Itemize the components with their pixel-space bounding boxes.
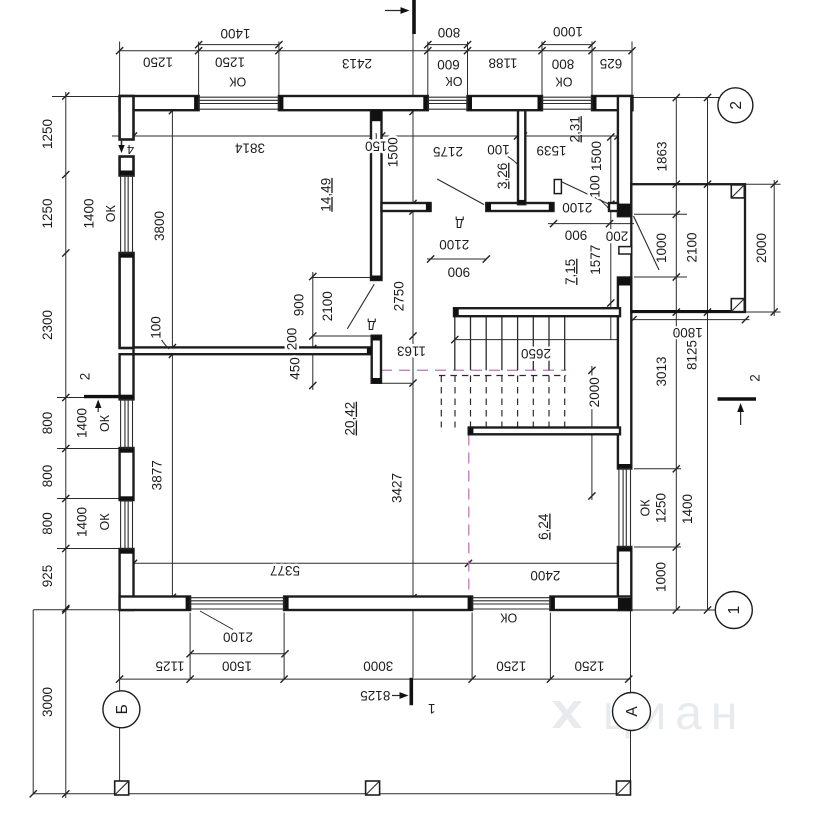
svg-text:625: 625	[600, 56, 623, 71]
svg-text:800: 800	[552, 56, 575, 71]
svg-text:800: 800	[40, 512, 55, 535]
svg-text:8125: 8125	[685, 340, 700, 370]
svg-text:1400: 1400	[680, 494, 695, 524]
svg-text:925: 925	[40, 565, 55, 588]
svg-text:1800: 1800	[673, 325, 703, 340]
svg-text:ОК: ОК	[104, 204, 118, 222]
svg-text:600: 600	[437, 57, 460, 72]
svg-text:6,24: 6,24	[536, 513, 551, 540]
svg-text:3877: 3877	[150, 460, 165, 490]
svg-text:4: 4	[127, 142, 134, 157]
svg-text:2100: 2100	[439, 237, 469, 252]
svg-text:Б: Б	[114, 704, 131, 714]
svg-text:2750: 2750	[391, 281, 406, 311]
svg-text:1250: 1250	[40, 119, 55, 149]
svg-text:900: 900	[292, 294, 307, 317]
svg-text:2000: 2000	[754, 233, 769, 263]
svg-text:1250: 1250	[40, 198, 55, 228]
svg-text:200: 200	[285, 328, 300, 351]
svg-text:7,15: 7,15	[563, 259, 578, 285]
svg-text:ОК: ОК	[555, 75, 573, 89]
svg-text:2,31: 2,31	[568, 116, 583, 142]
svg-text:1188: 1188	[488, 55, 517, 70]
svg-text:1577: 1577	[588, 245, 603, 275]
svg-text:ОК: ОК	[500, 611, 518, 625]
svg-text:1: 1	[428, 701, 436, 716]
svg-text:450: 450	[287, 357, 302, 380]
svg-text:2100: 2100	[685, 232, 700, 262]
svg-text:150: 150	[365, 139, 388, 154]
svg-text:5377: 5377	[270, 563, 300, 578]
svg-text:1000: 1000	[654, 233, 669, 263]
svg-text:2413: 2413	[342, 56, 372, 71]
svg-text:1250: 1250	[654, 493, 669, 523]
svg-text:900: 900	[448, 265, 471, 280]
svg-text:3000: 3000	[40, 687, 55, 717]
svg-text:3800: 3800	[152, 211, 167, 241]
svg-text:800: 800	[40, 412, 55, 435]
svg-text:Д: Д	[367, 318, 376, 332]
svg-text:1500: 1500	[222, 659, 252, 674]
svg-text:1250: 1250	[143, 55, 173, 70]
svg-text:1250: 1250	[574, 659, 604, 674]
svg-text:200: 200	[606, 229, 629, 244]
svg-text:1000: 1000	[553, 24, 583, 39]
svg-text:3814: 3814	[234, 140, 265, 155]
svg-text:100: 100	[487, 142, 510, 157]
svg-text:ОК: ОК	[229, 75, 247, 89]
svg-text:А: А	[624, 706, 641, 717]
svg-text:3427: 3427	[390, 473, 405, 503]
svg-text:2175: 2175	[433, 144, 463, 159]
svg-text:Д: Д	[455, 216, 464, 230]
svg-text:14,49: 14,49	[318, 178, 333, 212]
svg-text:2: 2	[78, 373, 93, 381]
svg-text:ОК: ОК	[98, 513, 112, 531]
svg-text:100: 100	[149, 316, 164, 339]
svg-text:800: 800	[438, 25, 461, 40]
svg-text:20,42: 20,42	[343, 402, 358, 436]
svg-text:3000: 3000	[363, 659, 393, 674]
svg-text:1250: 1250	[215, 55, 245, 70]
svg-text:3,26: 3,26	[495, 163, 510, 189]
svg-text:1863: 1863	[655, 141, 670, 171]
svg-text:1: 1	[726, 606, 743, 615]
svg-text:ОК: ОК	[445, 74, 463, 88]
svg-text:2100: 2100	[223, 629, 253, 644]
svg-text:1250: 1250	[496, 659, 526, 674]
svg-text:1500: 1500	[386, 137, 401, 167]
svg-text:8125: 8125	[360, 688, 390, 703]
svg-text:ОК: ОК	[638, 499, 652, 517]
svg-text:1539: 1539	[536, 143, 566, 158]
svg-text:2100: 2100	[562, 200, 592, 215]
svg-text:100: 100	[588, 175, 603, 198]
svg-text:1400: 1400	[75, 507, 90, 537]
svg-text:2000: 2000	[587, 377, 602, 407]
svg-text:1163: 1163	[397, 343, 426, 358]
svg-text:2300: 2300	[40, 310, 55, 340]
svg-text:2: 2	[748, 374, 763, 382]
svg-text:900: 900	[565, 228, 588, 243]
svg-text:ОК: ОК	[98, 414, 112, 432]
svg-text:1400: 1400	[75, 408, 90, 438]
svg-text:3013: 3013	[654, 356, 669, 386]
svg-text:2400: 2400	[530, 568, 560, 583]
svg-text:2: 2	[728, 101, 745, 110]
svg-text:1500: 1500	[589, 141, 604, 171]
svg-text:2650: 2650	[521, 346, 551, 361]
svg-text:1400: 1400	[82, 198, 97, 228]
svg-text:1125: 1125	[155, 659, 184, 674]
svg-text:1400: 1400	[220, 26, 250, 41]
svg-text:800: 800	[40, 465, 55, 488]
svg-text:1000: 1000	[654, 562, 669, 592]
svg-text:2100: 2100	[320, 291, 335, 321]
